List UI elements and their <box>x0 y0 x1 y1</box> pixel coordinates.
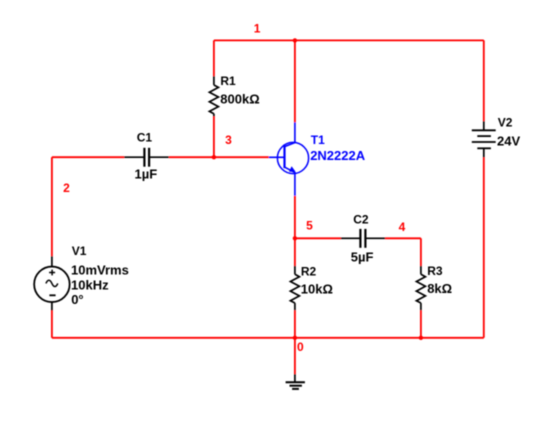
svg-text:8kΩ: 8kΩ <box>427 281 452 296</box>
wire bottom net 0 <box>52 337 484 339</box>
svg-text:T1: T1 <box>311 133 325 147</box>
svg-text:10kHz: 10kHz <box>71 277 109 292</box>
capacitor C1 <box>124 148 169 167</box>
transistor T1 <box>269 122 309 195</box>
svg-text:5µF: 5µF <box>351 249 374 264</box>
wire R3 bottom <box>420 310 422 338</box>
svg-text:4: 4 <box>399 220 406 234</box>
svg-text:3: 3 <box>225 133 232 147</box>
wire R1 bottom to node 3 <box>213 116 215 157</box>
wire C2 right to node 4 <box>385 237 421 239</box>
wire V2 bottom <box>483 157 485 337</box>
junction node 1 <box>293 38 297 42</box>
wire left vertical down to V1 <box>51 157 53 256</box>
capacitor C2 <box>341 229 385 248</box>
ground <box>286 374 305 389</box>
wire emitter red to node 5 <box>294 196 296 239</box>
wire top net 1 <box>214 39 484 41</box>
junction node 0 right <box>419 336 423 340</box>
svg-text:R1: R1 <box>220 74 236 88</box>
junction node 3 <box>212 155 216 159</box>
svg-text:0°: 0° <box>71 292 83 307</box>
wire V1 bottom to ground net <box>51 311 53 338</box>
svg-text:800kΩ: 800kΩ <box>220 91 259 106</box>
wire base red node 3 <box>214 156 269 158</box>
svg-text:2: 2 <box>63 181 70 195</box>
svg-text:10kΩ: 10kΩ <box>301 281 333 296</box>
svg-text:2N2222A: 2N2222A <box>310 148 366 163</box>
AC source V1 <box>34 256 70 310</box>
wire node 4 vertical R3 top <box>420 238 422 266</box>
junction node 5 <box>293 236 297 240</box>
svg-text:R3: R3 <box>427 264 443 278</box>
resistor R1 <box>209 76 218 116</box>
svg-text:1: 1 <box>254 22 261 36</box>
battery V2 <box>472 121 496 157</box>
svg-text:10mVrms: 10mVrms <box>71 262 129 277</box>
wire R2 top <box>294 238 296 266</box>
wire node 2 horizontal C1 left <box>52 156 124 158</box>
transistor T1 emitter arrow <box>289 166 296 172</box>
svg-text:C1: C1 <box>137 130 153 144</box>
svg-text:V1: V1 <box>72 244 87 258</box>
wire V2 top <box>483 40 485 121</box>
wire R1 top <box>213 40 215 76</box>
svg-text:V2: V2 <box>498 116 513 130</box>
svg-text:0: 0 <box>297 340 304 354</box>
resistor R2 <box>290 266 299 310</box>
svg-text:C2: C2 <box>353 213 369 227</box>
wire C1 right to node 3 <box>169 156 214 158</box>
wire ground stub red <box>294 338 296 374</box>
resistor R3 <box>416 266 425 310</box>
svg-text:1µF: 1µF <box>135 166 158 181</box>
junction node 0 left <box>293 336 297 340</box>
wire R2 bottom <box>294 310 296 338</box>
svg-text:5: 5 <box>306 218 313 232</box>
wire node 5 to C2 left <box>295 237 341 239</box>
wire collector red <box>294 40 296 122</box>
svg-text:R2: R2 <box>301 264 317 278</box>
svg-text:24V: 24V <box>497 134 520 149</box>
